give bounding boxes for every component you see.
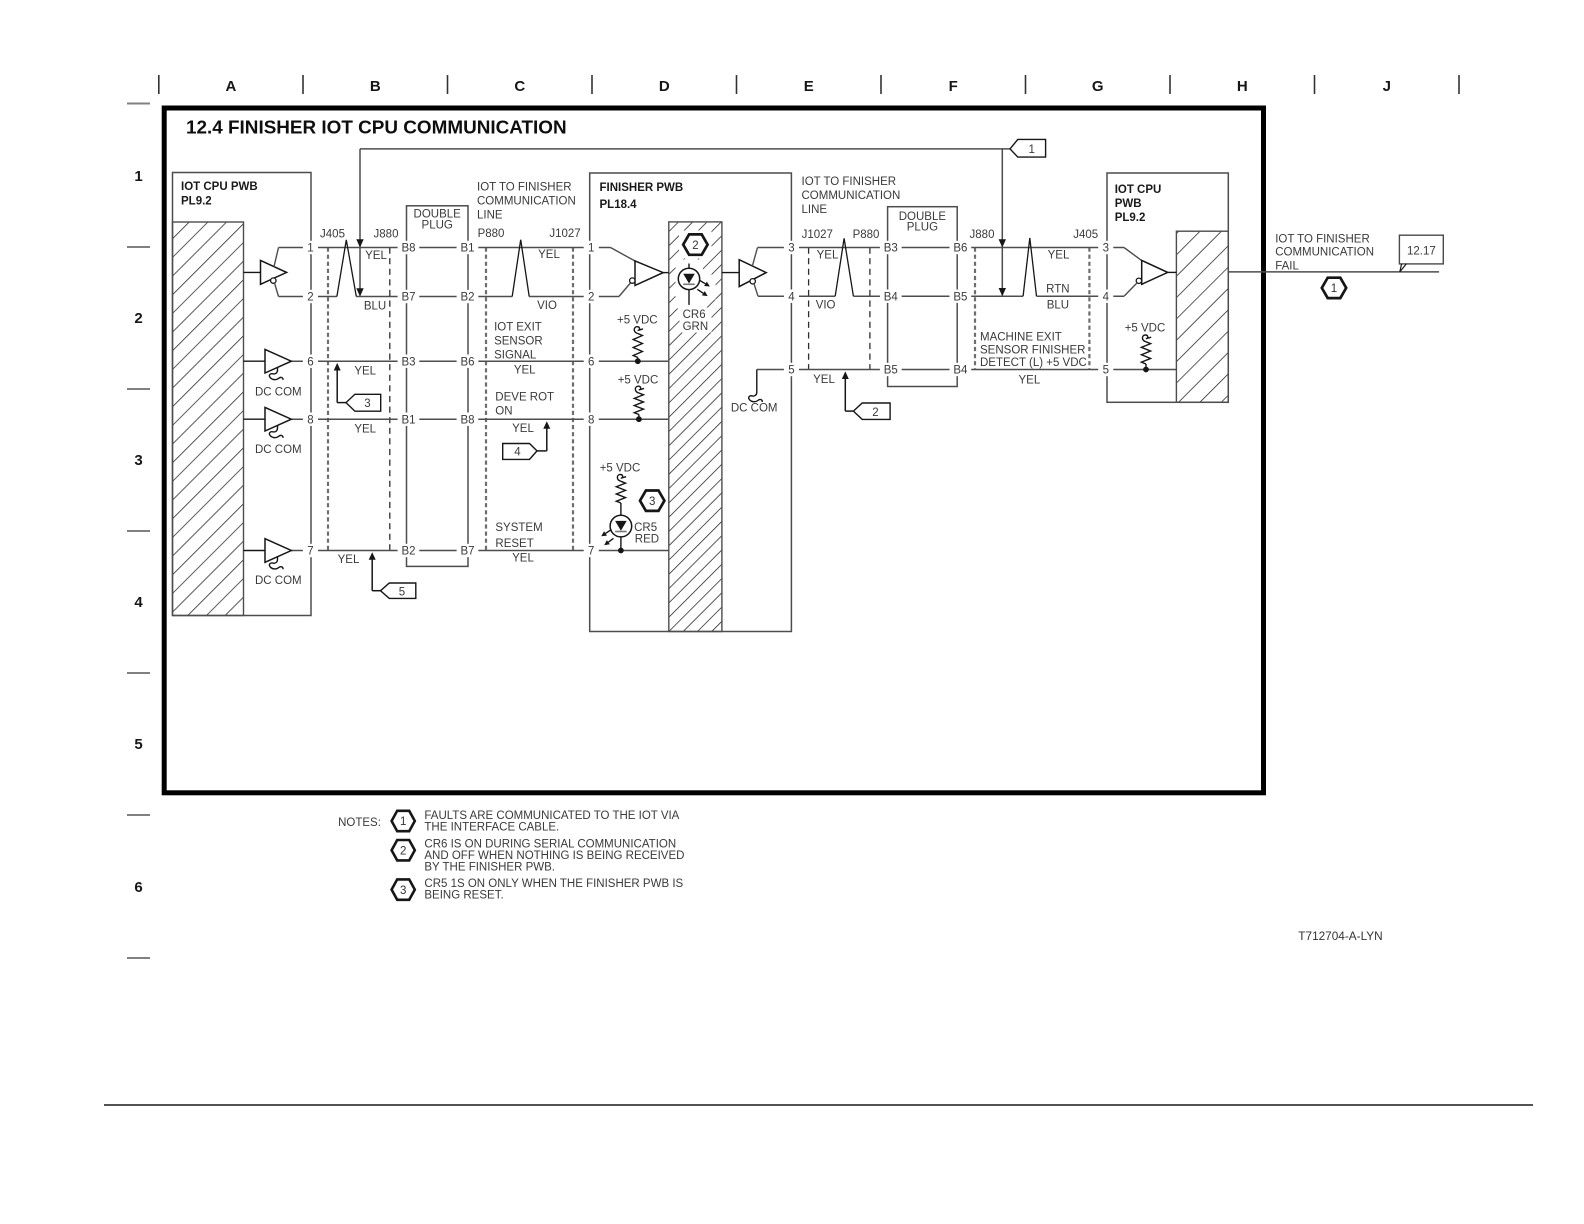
svg-text:IOT TO FINISHER: IOT TO FINISHER [802,176,897,188]
note 2 text [424,839,684,874]
svg-text:F: F [949,78,958,95]
svg-text:C: C [514,78,525,95]
signal name: DEVE ROT ON [495,392,554,418]
svg-text:2: 2 [134,310,142,327]
svg-text:J405: J405 [1073,229,1098,241]
svg-text:FINISHER PWB: FINISHER PWB [600,182,684,194]
buffer U4 (left IOT CPU, pin 7) [244,539,292,563]
connector J405 dashed boundary (right) [1088,248,1090,370]
svg-text:NOTES:: NOTES: [338,817,381,829]
connector names (left half) [320,228,581,240]
note hexagon 3 (legend) [392,879,415,899]
svg-text:PWB: PWB [1115,198,1142,210]
pin labels left IOT CPU box [303,241,318,558]
finisher right edge pin labels [784,241,799,377]
svg-text:BY THE FINISHER PWB.: BY THE FINISHER PWB. [424,862,555,874]
svg-text:J405: J405 [320,229,345,241]
svg-text:B2: B2 [460,292,474,304]
svg-text:3: 3 [1103,243,1109,255]
wire: drop from fault line into J880 pins 3/4 with arrows [1001,149,1003,295]
svg-text:4: 4 [514,447,521,459]
wire row 3 (right YEL) [758,247,1125,249]
svg-text:4: 4 [1103,291,1110,303]
CR6 light arrows [699,280,705,284]
svg-text:IOT CPU PWB: IOT CPU PWB [181,181,258,193]
IOT CPU PWB hatched area (right) [1176,231,1228,402]
svg-text:D: D [659,78,670,95]
resistor R3 (CR5 series) [617,474,626,481]
svg-text:6: 6 [588,356,594,368]
svg-text:YEL: YEL [512,423,534,435]
svg-text:B6: B6 [460,356,474,368]
svg-text:A: A [225,78,236,95]
LED CR5 RED [610,515,632,537]
svg-text:PL9.2: PL9.2 [181,196,212,208]
svg-text:B8: B8 [460,414,474,426]
svg-text:YEL: YEL [338,554,360,566]
svg-text:P880: P880 [478,228,505,240]
hatch clearance for CR6 group [679,231,712,259]
svg-text:CR5: CR5 [634,522,657,534]
svg-text:SENSOR FINISHER: SENSOR FINISHER [980,344,1085,356]
signal name: MACHINE EXIT SENSOR FINISHER DETECT [980,332,1087,369]
wire row 4 (right VIO/RTN BLU) [758,295,1124,297]
svg-text:6: 6 [307,356,313,368]
resistor R4 (machine exit sensor pull-up) [1142,335,1151,342]
svg-text:CR6: CR6 [683,309,706,321]
note hexagon 2 (legend) [392,840,415,860]
off-page reference 12.17 box [1399,235,1443,272]
svg-text:BLU: BLU [1047,300,1069,312]
svg-text:DC COM: DC COM [255,575,302,587]
svg-text:B5: B5 [884,365,898,377]
connector J1027 dashed boundary (right) [808,248,810,370]
svg-text:H: H [1237,78,1248,95]
DOUBLE PLUG box (left) [407,206,469,567]
svg-text:J1027: J1027 [802,229,833,241]
svg-text:YEL: YEL [365,250,387,262]
wire: IOT TO FINISHER COMMUNICATION FAIL output [1228,271,1439,273]
CR5 light arrows [606,530,612,534]
svg-text:G: G [1092,78,1104,95]
line receiver U5 (finisher input, pins 1/2) [611,248,669,297]
svg-text:3: 3 [788,243,794,255]
svg-text:LINE: LINE [477,210,503,222]
wire row 1 (YEL serial line) [279,247,611,249]
svg-text:CR5 1S ON ONLY WHEN THE FINISH: CR5 1S ON ONLY WHEN THE FINISHER PWB IS [424,878,683,890]
note flag 4 (points right) [503,444,537,460]
svg-text:4: 4 [134,594,143,611]
svg-text:+5 VDC: +5 VDC [618,374,659,386]
signal name: IOT TO FINISHER COMMUNICATION LINE (right) [802,176,901,216]
svg-text:B3: B3 [401,356,415,368]
svg-text:IOT EXIT: IOT EXIT [494,322,542,334]
junction dot pin8/R2 [636,416,642,422]
svg-text:VIO: VIO [537,300,557,312]
FINISHER PWB hatched area [669,222,722,632]
buffer U3 (left IOT CPU, pin 8) [244,407,292,431]
wire row 5 (MACHINE EXIT SENSOR +5VDC) [757,369,1177,371]
twisted pair symbol P880 (right) [835,238,853,296]
svg-text:B: B [370,78,381,95]
svg-text:B7: B7 [460,546,474,558]
svg-text:B2: B2 [401,546,415,558]
buffer U2 (left IOT CPU, pin 6) [244,349,292,373]
svg-text:DC COM: DC COM [255,386,302,398]
svg-text:12.17: 12.17 [1407,245,1436,257]
svg-text:B6: B6 [953,243,967,255]
svg-text:YEL: YEL [1019,374,1041,386]
row ruler dashes [127,104,150,959]
wire row 6 (IOT EXIT SENSOR SIGNAL) [291,360,669,362]
svg-text:8: 8 [307,414,313,426]
svg-text:+5 VDC: +5 VDC [617,315,658,327]
line driver U1 (left IOT CPU, pins 1/2) [244,248,287,297]
box titles [181,181,1161,224]
svg-text:5: 5 [1103,365,1109,377]
svg-text:B1: B1 [460,243,474,255]
note flag 5 [381,583,416,598]
wire colour labels [338,249,1070,566]
finisher left edge pin labels [584,241,599,558]
connector J1027 dashed boundary (left) [572,248,574,551]
svg-text:B4: B4 [884,291,899,303]
note hexagon 2 (schematic) [683,234,707,254]
DC COM return at finisher pin 5 [731,370,778,415]
connector J880 dashed boundary (right) [974,248,976,370]
DOUBLE PLUG box (right) [888,207,958,387]
svg-text:COMMUNICATION: COMMUNICATION [802,190,901,202]
DC COM return of U4 [255,557,302,587]
svg-text:P880: P880 [853,229,880,241]
svg-text:FAIL: FAIL [1275,261,1299,273]
svg-text:YEL: YEL [354,424,376,436]
line receiver U7 (right IOT CPU, pins 3/4) [1124,248,1176,297]
column ruler ticks [159,75,1459,94]
svg-text:J880: J880 [374,229,399,241]
wire: drop from fault line into J405 pins 1/2 with arrows [359,149,361,296]
svg-text:T712704-A-LYN: T712704-A-LYN [1298,929,1382,943]
svg-text:SYSTEM: SYSTEM [495,522,542,534]
svg-text:FAULTS ARE COMMUNICATED TO THE: FAULTS ARE COMMUNICATED TO THE IOT VIA [424,810,679,822]
svg-text:IOT TO FINISHER: IOT TO FINISHER [1275,234,1370,246]
svg-text:DEVE ROT: DEVE ROT [495,392,554,404]
svg-text:+5 VDC: +5 VDC [600,463,641,475]
connector J405 dashed boundary (left) [327,248,329,551]
svg-text:J1027: J1027 [549,228,580,240]
svg-text:ON: ON [495,406,512,418]
svg-text:2: 2 [588,292,594,304]
svg-text:RTN: RTN [1046,283,1069,295]
row numbers [134,168,143,896]
signal name: IOT TO FINISHER COMMUNICATION LINE (left) [477,182,576,222]
svg-text:1: 1 [400,816,406,828]
svg-text:12.4 FINISHER IOT CPU COMMUNIC: 12.4 FINISHER IOT CPU COMMUNICATION [186,118,567,139]
note flag 3 arrow (pin 6) [336,370,338,403]
svg-text:B3: B3 [884,243,898,255]
note 3 text [424,878,683,902]
svg-text:VIO: VIO [816,299,836,311]
svg-text:MACHINE EXIT: MACHINE EXIT [980,332,1062,344]
DOUBLE PLUG left pin labels [398,241,479,558]
note hexagon 3 (schematic) [640,491,664,511]
svg-text:PLUG: PLUG [907,222,938,234]
resistor R1 (pull-up on pin 6) [634,327,643,334]
main frame border [164,108,1263,793]
svg-text:YEL: YEL [1048,250,1070,262]
svg-text:1: 1 [588,243,594,255]
twisted pair symbol J405 (right) [1023,238,1036,296]
column letters [225,78,1390,95]
LED CR6 GRN [688,264,690,305]
svg-text:GRN: GRN [683,321,709,333]
svg-text:3: 3 [364,398,370,410]
svg-text:YEL: YEL [538,249,560,261]
svg-text:5: 5 [788,365,794,377]
IOT CPU PWB hatched area (left) [173,222,244,616]
note flag 4 arrow (pin 8) [546,428,548,451]
note hexagon 1 (schematic) [1322,278,1346,298]
svg-text:2: 2 [400,845,406,857]
svg-text:CR6 IS ON DURING SERIAL COMMUN: CR6 IS ON DURING SERIAL COMMUNICATION [424,839,676,851]
svg-text:E: E [804,78,814,95]
svg-text:BEING RESET.: BEING RESET. [424,890,503,902]
svg-text:6: 6 [134,879,142,896]
svg-text:B8: B8 [401,243,415,255]
wire row 8 (DEVE ROT ON) [291,418,669,420]
junction dot pin7/CR5 [618,548,624,554]
svg-text:1: 1 [1331,283,1337,295]
svg-text:YEL: YEL [514,364,536,376]
svg-text:SENSOR: SENSOR [494,336,543,348]
svg-text:THE INTERFACE CABLE.: THE INTERFACE CABLE. [424,822,559,834]
svg-text:J: J [1383,78,1391,95]
svg-text:B7: B7 [401,292,415,304]
svg-text:1: 1 [307,243,313,255]
note 1 text [424,810,679,834]
wire row 7 (SYSTEM RESET) [291,550,669,552]
svg-text:AND OFF WHEN NOTHING IS BEING: AND OFF WHEN NOTHING IS BEING RECEIVED [424,850,684,862]
svg-text:8: 8 [588,414,594,426]
svg-text:7: 7 [307,546,313,558]
svg-text:YEL: YEL [512,552,534,564]
twisted pair symbol P880 (left) [512,240,529,297]
svg-text:YEL: YEL [354,365,376,377]
line driver U6 (finisher output, pins 3/4) [722,248,766,297]
bottom rule [104,1104,1533,1106]
svg-text:5: 5 [399,587,405,599]
svg-text:IOT CPU: IOT CPU [1115,184,1162,196]
svg-text:B4: B4 [953,365,968,377]
svg-text:COMMUNICATION: COMMUNICATION [477,196,576,208]
svg-text:LINE: LINE [802,204,828,216]
wire: top fault line to note flag 1 [360,148,1010,150]
svg-text:DC COM: DC COM [731,402,778,414]
svg-text:2: 2 [692,240,698,252]
svg-text:5: 5 [134,736,142,753]
IOT CPU PWB PL9.2 box (left) [173,173,312,616]
svg-text:RED: RED [635,534,659,546]
note hexagon 1 (legend) [392,811,415,831]
signal name: SYSTEM RESET [495,522,542,550]
svg-text:J880: J880 [970,229,995,241]
svg-text:YEL: YEL [813,374,835,386]
connector P880 dashed boundary (right) [869,248,871,370]
svg-text:B1: B1 [401,414,415,426]
svg-text:+5 VDC: +5 VDC [1125,323,1166,335]
svg-text:DETECT (L) +5 VDC: DETECT (L) +5 VDC [980,357,1087,369]
resistor R2 (pull-up on pin 8) [635,386,644,393]
FINISHER PWB PL18.4 box [590,173,792,632]
connector P880 dashed boundary (left) [485,248,487,551]
svg-text:1: 1 [134,168,142,185]
svg-text:2: 2 [307,292,313,304]
svg-text:PLUG: PLUG [422,220,453,232]
note flag 2 arrow (pin 5) [844,378,846,412]
DC COM return of U3 [255,425,302,455]
IOT CPU PWB PL9.2 box (right) [1107,173,1228,402]
svg-text:3: 3 [649,496,655,508]
svg-text:RESET: RESET [495,538,533,550]
signal name: IOT TO FINISHER COMMUNICATION FAIL [1275,234,1374,273]
wire row 2 (BLU serial return) [279,296,620,298]
note flag 5 arrow (pin 7) [371,559,373,591]
connector J880 dashed boundary (left) [389,248,391,551]
svg-text:SIGNAL: SIGNAL [494,350,537,362]
svg-text:YEL: YEL [817,250,839,262]
right IOT CPU pin labels [1098,241,1113,377]
svg-text:3: 3 [134,452,142,469]
junction dot pin6/R1 [635,358,641,364]
svg-text:B5: B5 [953,291,967,303]
svg-text:1: 1 [1028,144,1034,156]
svg-text:2: 2 [872,407,878,419]
note flag 1 (top) [1010,139,1046,157]
svg-text:4: 4 [788,291,795,303]
note flag 3 [346,394,381,411]
svg-text:7: 7 [588,546,594,558]
svg-text:BLU: BLU [364,301,386,313]
twisted pair symbol J405 (left) [337,240,356,297]
connector names (right half) [802,229,1099,241]
svg-text:PL18.4: PL18.4 [600,199,638,211]
DOUBLE PLUG right pin labels [880,241,971,377]
svg-text:DC COM: DC COM [255,444,302,456]
svg-text:3: 3 [400,885,406,897]
note flag 2 [853,403,890,419]
svg-text:COMMUNICATION: COMMUNICATION [1275,247,1374,259]
svg-text:IOT TO FINISHER: IOT TO FINISHER [477,182,572,194]
svg-text:PL9.2: PL9.2 [1115,212,1146,224]
signal name: IOT EXIT SENSOR SIGNAL [494,322,543,362]
DOUBLE PLUG labels [414,209,947,234]
junction dot pin5/R4 [1143,367,1149,373]
DC COM return of U2 [255,367,302,398]
